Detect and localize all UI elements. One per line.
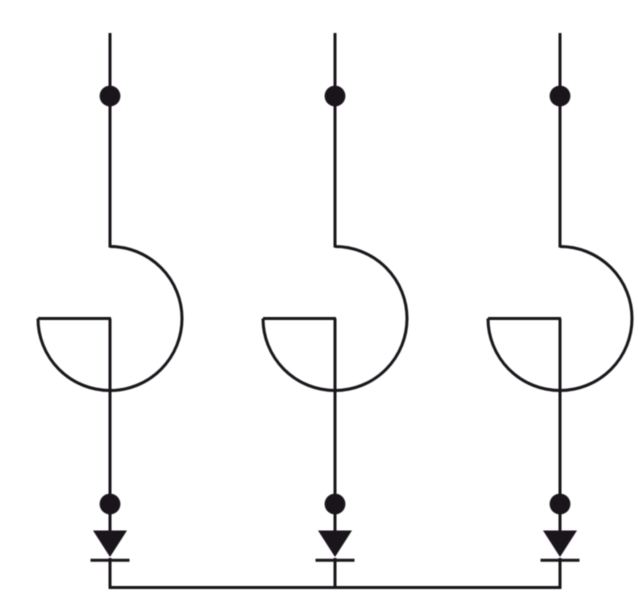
wire: phase 1 to bus (109, 558, 112, 589)
diode D3: cathode bar (541, 559, 580, 562)
wire: phase 2 lower drop (334, 319, 337, 532)
diode D1: cathode bar (91, 559, 130, 562)
winding symbol W2: horizontal radius line (263, 317, 336, 320)
node: phase 2 upper junction dot (325, 86, 346, 107)
wire: phase 3 top feeder (559, 33, 562, 248)
wire: common bottom bus (109, 586, 562, 589)
node: phase 3 upper junction dot (550, 86, 571, 107)
node: phase 1 lower junction dot (100, 494, 121, 515)
winding symbol W3: horizontal radius line (488, 317, 561, 320)
wire: phase 1 top feeder (109, 33, 112, 248)
diode D3: anode triangle (543, 531, 577, 558)
wire: phase 3 to bus (559, 558, 562, 589)
node: phase 2 lower junction dot (325, 494, 346, 515)
diode D1: anode triangle (93, 531, 127, 558)
winding symbol W3: 3/4-circle arc (488, 247, 632, 391)
diode D2: anode triangle (318, 531, 352, 558)
winding symbol W2: 3/4-circle arc (263, 247, 407, 391)
wire: phase 2 to bus (334, 558, 337, 589)
wire: phase 3 lower drop (559, 319, 562, 532)
node: phase 3 lower junction dot (550, 494, 571, 515)
winding symbol W1: horizontal radius line (38, 317, 111, 320)
winding symbol W1: 3/4-circle arc (38, 247, 182, 391)
wire: phase 2 top feeder (334, 33, 337, 248)
node: phase 1 upper junction dot (100, 86, 121, 107)
wire: phase 1 lower drop (109, 319, 112, 532)
diode D2: cathode bar (316, 559, 355, 562)
